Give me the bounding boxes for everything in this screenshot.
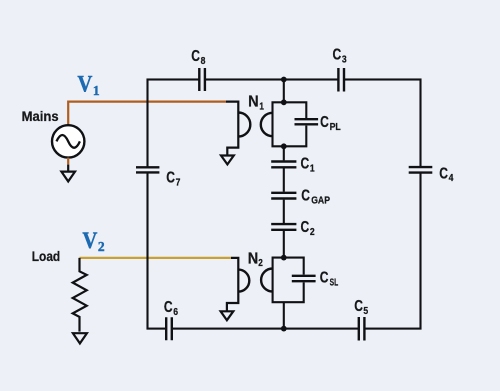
ground of N2 electrode xyxy=(221,311,234,320)
svg-text:V: V xyxy=(82,228,97,254)
capacitor C2 xyxy=(271,224,296,230)
capacitor CPL xyxy=(295,119,319,124)
N1 pickup loop xyxy=(261,102,306,146)
svg-text:7: 7 xyxy=(176,177,181,188)
N2 pickup loop xyxy=(261,258,304,303)
label N2 xyxy=(248,250,263,269)
svg-text:1: 1 xyxy=(310,163,315,174)
capacitor C1 xyxy=(271,162,296,168)
svg-text:N: N xyxy=(248,94,259,111)
svg-text:C: C xyxy=(301,219,310,236)
wire V1 orange from source to N1 electrode xyxy=(68,102,226,126)
wire C2 to N2 loop xyxy=(283,231,285,258)
svg-text:2: 2 xyxy=(258,258,263,269)
svg-text:N: N xyxy=(248,250,259,267)
label V2 xyxy=(82,228,105,254)
label C7 xyxy=(166,169,180,188)
wire centre column top xyxy=(283,80,285,103)
svg-text:2: 2 xyxy=(98,239,105,254)
svg-text:GAP: GAP xyxy=(311,195,330,206)
label C6 xyxy=(164,299,178,318)
capacitor C7 xyxy=(136,167,159,172)
label C3 xyxy=(333,46,347,65)
wire gap for C6 xyxy=(166,325,172,332)
ground of load xyxy=(73,333,87,343)
svg-text:C: C xyxy=(301,156,310,173)
label C1 xyxy=(301,156,315,175)
wire N2 loop to bottom rail xyxy=(283,302,285,328)
svg-text:3: 3 xyxy=(342,54,347,65)
ground of mains source xyxy=(61,172,75,182)
wire gap for C8 xyxy=(199,76,205,83)
label N1 xyxy=(248,94,264,113)
capacitor C3 xyxy=(338,68,344,92)
svg-text:C: C xyxy=(354,298,363,315)
label C5 xyxy=(354,298,368,317)
svg-text:C: C xyxy=(191,48,200,65)
node top of N2 loop xyxy=(281,255,287,261)
svg-text:Load: Load xyxy=(32,249,60,264)
capacitor CGAP xyxy=(271,193,296,199)
capacitor C6 xyxy=(166,317,172,340)
svg-text:8: 8 xyxy=(201,56,206,67)
svg-text:1: 1 xyxy=(93,83,100,98)
label CGAP xyxy=(301,187,330,206)
svg-text:C: C xyxy=(439,165,448,182)
svg-text:PL: PL xyxy=(330,122,341,133)
svg-text:C: C xyxy=(320,270,329,287)
svg-text:1: 1 xyxy=(259,102,264,113)
wire gap for C4 xyxy=(417,167,424,173)
svg-text:5: 5 xyxy=(363,306,368,317)
wire N1 loop to C1 xyxy=(283,146,285,160)
wire gap for C3 xyxy=(338,76,344,83)
node bottom of N1 loop xyxy=(281,143,287,149)
capacitor CSL xyxy=(292,276,316,281)
electrode N2 left plate xyxy=(227,258,249,311)
svg-text:C: C xyxy=(164,299,173,316)
svg-text:4: 4 xyxy=(449,173,454,184)
label CPL xyxy=(320,114,341,133)
capacitor C5 xyxy=(359,317,365,341)
capacitor C8 xyxy=(199,68,205,91)
wire V2 gold from load to N2 electrode xyxy=(80,257,232,259)
AC source V1 circle xyxy=(52,125,84,157)
label C8 xyxy=(191,48,205,67)
ground of N1 electrode xyxy=(221,156,234,165)
svg-text:Mains: Mains xyxy=(22,109,59,124)
node on top rail xyxy=(281,77,287,83)
svg-text:V: V xyxy=(77,72,92,98)
wire main loop xyxy=(148,80,421,329)
wire C1 to CGAP xyxy=(283,168,285,191)
capacitor C4 xyxy=(409,167,433,173)
resistor Load xyxy=(73,258,87,332)
label V1 xyxy=(77,72,100,98)
label C4 xyxy=(439,165,453,184)
wire below AC source xyxy=(67,158,69,172)
label C2 xyxy=(301,219,315,238)
svg-text:C: C xyxy=(166,169,175,186)
svg-text:2: 2 xyxy=(310,227,315,238)
node on bottom rail xyxy=(281,326,287,332)
svg-text:SL: SL xyxy=(330,277,339,288)
svg-text:C: C xyxy=(333,46,342,63)
svg-text:6: 6 xyxy=(173,307,178,318)
svg-text:C: C xyxy=(301,187,310,204)
wire CGAP to C2 xyxy=(283,200,285,223)
svg-text:C: C xyxy=(320,114,329,131)
wire gap for C7 xyxy=(144,167,151,172)
electrode N1 left plate xyxy=(226,102,250,156)
wire gap for C5 xyxy=(359,325,365,332)
label CSL xyxy=(320,270,338,289)
node top of N1 loop xyxy=(281,99,287,105)
